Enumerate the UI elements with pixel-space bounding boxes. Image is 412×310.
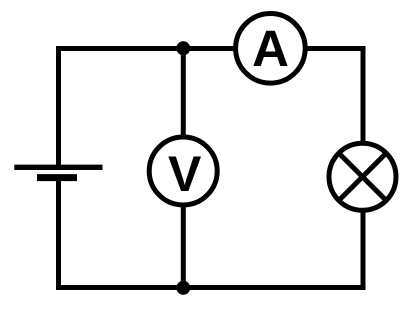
battery cell: short plate (negative terminal) (37, 174, 77, 181)
junction node (bottom, voltmeter branch to bottom wire) (176, 281, 190, 295)
battery cell: long plate (positive terminal) (14, 165, 102, 170)
lamp (329, 143, 396, 210)
ammeter A (236, 14, 306, 84)
junction node (top, voltmeter branch to top wire) (176, 41, 190, 55)
svg-text:V: V (168, 146, 202, 202)
voltmeter V (149, 137, 217, 205)
wire: main circuit loop (left, top, right, bottom sides; gap in left wire for battery) (59, 49, 364, 288)
wire: voltmeter branch (vertical, between top and bottom junctions) (181, 49, 186, 288)
svg-text:A: A (252, 20, 289, 77)
